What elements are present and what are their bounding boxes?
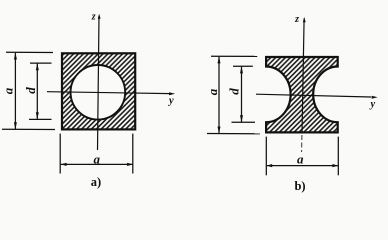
figure b: dimension a left, extension line bottom xyxy=(207,133,260,135)
figure a: bottom dimension left arrowhead xyxy=(61,163,67,166)
figure a: bottom dimension right arrowhead xyxy=(127,163,133,166)
figure a: bottom dimension line xyxy=(61,163,133,165)
figure a: circular hole xyxy=(71,65,126,120)
figure a: dimension d left, top arrowhead xyxy=(36,63,39,70)
figure b: bottom dimension line xyxy=(267,165,338,167)
figure a: z axis arrowhead xyxy=(98,14,101,19)
figure b: dimension d left, dimension line xyxy=(241,67,243,122)
figure a: dimension d left, extension cap bottom xyxy=(29,118,52,120)
figure a: dimension d left, dimension line xyxy=(36,64,38,120)
figure b: bottom dimension right arrowhead xyxy=(332,164,338,167)
svg-text:a): a) xyxy=(91,175,101,189)
svg-text:a: a xyxy=(297,151,304,166)
figure a: y axis arrowhead xyxy=(169,92,175,95)
figure b: z axis centerline below section xyxy=(301,135,303,152)
svg-text:b): b) xyxy=(294,179,305,193)
figure b: dimension a left, top arrowhead xyxy=(218,56,221,63)
figure a: bottom dimension, right extension line xyxy=(132,134,134,174)
figure a: dimension a left, extension line bottom xyxy=(2,128,55,130)
figure a: dimension d left, extension cap top xyxy=(30,62,52,64)
figure b: dimension a left, dimension line xyxy=(218,57,220,134)
figure a: square cross-section outline with hatching xyxy=(62,53,135,129)
figure b: dimension a left, bottom arrowhead xyxy=(218,127,221,134)
figure b: y axis line xyxy=(256,94,371,97)
figure b: dimension d left, extension cap top xyxy=(233,65,253,67)
svg-text:z: z xyxy=(91,11,96,22)
svg-text:d: d xyxy=(23,87,38,94)
svg-text:y: y xyxy=(167,95,174,106)
figure b: z axis arrowhead xyxy=(303,17,306,22)
svg-text:a: a xyxy=(205,88,220,95)
figure a: bottom dimension, left extension line xyxy=(59,134,61,174)
figure a: dimension a left, top arrowhead xyxy=(14,52,17,59)
figure a: y axis line xyxy=(47,92,171,94)
figure a: z axis line xyxy=(98,16,100,150)
figure b: bottom dimension left arrowhead xyxy=(266,164,272,167)
figure b: z axis line xyxy=(302,19,304,134)
figure b: dimension a left, extension line top xyxy=(211,55,257,57)
svg-text:a: a xyxy=(94,152,101,167)
svg-text:d: d xyxy=(227,88,242,95)
figure a: dimension a left, bottom arrowhead xyxy=(14,122,17,129)
figure a: dimension a left, dimension line xyxy=(14,53,16,129)
figure b: y axis arrowhead xyxy=(372,96,378,99)
figure a: dimension d left, bottom arrowhead xyxy=(36,112,39,119)
figure b: dimension d left, bottom arrowhead xyxy=(240,115,243,122)
figure b: bottom dimension, left extension line xyxy=(265,137,267,176)
svg-text:a: a xyxy=(0,87,15,94)
figure b: dimension d left, top arrowhead xyxy=(240,66,243,73)
svg-text:z: z xyxy=(294,14,299,25)
figure a: dimension a left, extension line top xyxy=(6,51,53,53)
svg-text:y: y xyxy=(368,99,375,110)
figure b: dimension d left, extension cap bottom xyxy=(232,121,256,123)
figure b: notched cross-section outline with hatching xyxy=(266,57,338,132)
figure b: bottom dimension, right extension line xyxy=(337,137,339,176)
